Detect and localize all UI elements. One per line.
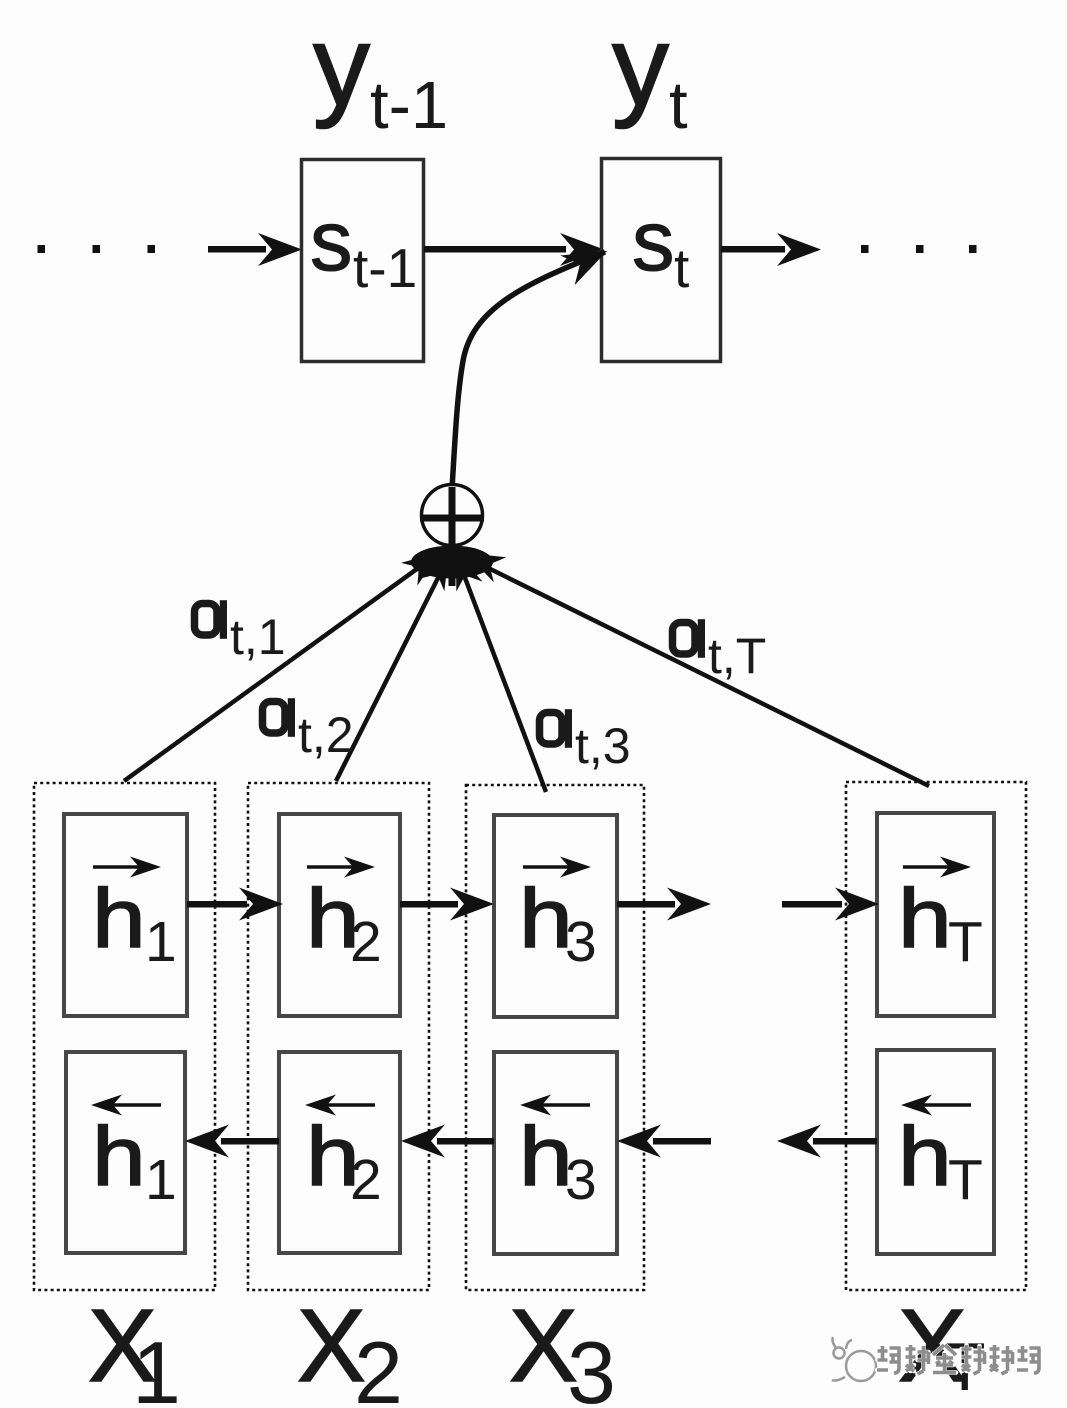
node s_{t-1} box [302, 160, 424, 362]
svg-text:t,2: t,2 [298, 707, 354, 763]
wire: backward chain hT->gap [777, 1125, 877, 1158]
node s_t box [602, 159, 721, 362]
encoder column 2: dashed box x2 [248, 783, 429, 1290]
svg-text:s: s [310, 194, 353, 289]
wire: attention line a_{t,2} [336, 545, 461, 781]
svg-text:t: t [674, 237, 689, 299]
wire: forward chain h1->h2 [187, 888, 283, 921]
wire: backward chain h2->h1 [185, 1125, 279, 1158]
node h-backward-3 box [494, 1052, 617, 1254]
label x_1 [88, 1288, 181, 1408]
junction: arrowhead cluster blob below sum [411, 546, 493, 579]
wire: forward chain h2->h3 [400, 888, 494, 921]
svg-text:3: 3 [567, 1323, 616, 1408]
svg-text:s: s [632, 194, 675, 289]
svg-text:1: 1 [145, 910, 177, 974]
svg-text:t: t [669, 68, 688, 143]
svg-text:h: h [92, 872, 146, 966]
node h-forward-3 box [494, 815, 617, 1017]
svg-text:t,3: t,3 [575, 718, 631, 774]
wire: arrow s_{t-1} to s_t [424, 233, 604, 266]
svg-text:1: 1 [132, 1323, 181, 1408]
label a_{t,2} [263, 698, 354, 763]
label x_T [898, 1288, 986, 1405]
label x_3 [509, 1288, 616, 1408]
wire: arrow out of s_t [721, 233, 821, 266]
svg-text:T: T [948, 1148, 983, 1212]
svg-text:3: 3 [565, 910, 597, 974]
encoder column 1: dashed box x1 [34, 783, 215, 1290]
svg-text:3: 3 [565, 1148, 597, 1212]
svg-text:h: h [898, 1110, 952, 1204]
label a_{t,1} [195, 600, 286, 665]
watermark logo (ant) [832, 1337, 876, 1381]
encoder column T: dashed box xT [846, 782, 1026, 1290]
wire: curved arrow from sum circle to s_t [452, 236, 614, 489]
svg-text:2: 2 [354, 1323, 403, 1408]
node h-forward-T box [877, 813, 994, 1016]
label y_{t-1} [313, 3, 448, 143]
svg-text:t,T: t,T [708, 628, 766, 684]
wire: attention line a_{t,T} [460, 540, 929, 786]
wire: backward chain gap->h3 [617, 1125, 711, 1158]
label y_t [612, 3, 688, 143]
svg-text:h: h [898, 872, 952, 966]
label a_{t,3} [540, 709, 631, 774]
label a_{t,T} [673, 619, 767, 684]
label x_2 [297, 1288, 403, 1408]
node h-backward-2 box [279, 1052, 400, 1253]
wire: forward chain gap->hT [782, 888, 879, 921]
svg-text:1: 1 [145, 1148, 177, 1212]
svg-text:2: 2 [350, 1148, 382, 1212]
wire: forward chain h3->gap [617, 888, 711, 921]
svg-text:h: h [92, 1110, 146, 1204]
encoder column 3: dashed box x3 [466, 785, 644, 1290]
watermark text (hand-drawn CJK strokes, white halo) [877, 1345, 1041, 1374]
svg-text:t-1: t-1 [353, 237, 417, 299]
wire: attention line a_{t,1} [124, 541, 448, 781]
svg-text:T: T [948, 910, 983, 974]
node h-backward-T box [877, 1050, 994, 1254]
node h-forward-1 box [64, 814, 187, 1016]
wire: attention line a_{t,3} [443, 546, 546, 792]
wire: arrow into s_{t-1} [208, 233, 302, 266]
svg-text:t,1: t,1 [230, 609, 286, 665]
svg-text:y: y [313, 3, 370, 130]
svg-text:t-1: t-1 [370, 68, 448, 143]
node: right ellipsis dots [861, 245, 977, 253]
node: sum circle (circled plus) [420, 485, 484, 587]
svg-text:2: 2 [350, 910, 382, 974]
wire: backward chain h3->h2 [401, 1125, 494, 1158]
node h-forward-2 box [279, 814, 400, 1016]
svg-text:y: y [612, 3, 669, 130]
node: left ellipsis dots [38, 245, 156, 253]
node h-backward-1 box [66, 1052, 185, 1253]
